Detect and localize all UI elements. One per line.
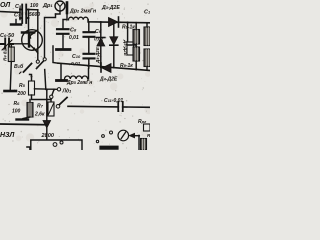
svg-text:Д3-Д2Е: Д3-Д2Е: [101, 5, 120, 11]
svg-text:R: R: [147, 133, 150, 138]
transistor T1: [22, 30, 43, 51]
svg-text:Д4-Д2Е: Д4-Д2Е: [95, 46, 100, 64]
svg-text:R8-1к: R8-1к: [122, 25, 135, 31]
resistor right-edge bottom: [144, 49, 151, 67]
terminal circles bottom middle: [96, 140, 98, 142]
resistor bottom right: [141, 139, 147, 151]
svg-text:Др2 2мкГн: Др2 2мкГн: [69, 9, 97, 15]
svg-text:2800: 2800: [41, 133, 55, 139]
resistor R9: [133, 47, 140, 61]
svg-text:5600: 5600: [29, 12, 40, 18]
switch Ld (to bus3): [56, 105, 60, 109]
node label ОЛ (cut word, top-left): [0, 2, 10, 9]
capacitor C6 (trimmer): [0, 33, 14, 39]
capacitor C10: [84, 54, 95, 59]
capacitor C8: [57, 29, 69, 34]
bus 4 (left bottom): [0, 123, 47, 126]
phones box 2800: [41, 133, 55, 139]
Rreg label + box: [138, 119, 147, 125]
meter (circle with arrow): [118, 130, 129, 141]
screen box wires (left tall verticals): [45, 14, 56, 57]
junction arrow to phones: [43, 121, 51, 129]
diode D3: [109, 18, 119, 27]
diode D6 branch (down): [113, 22, 115, 36]
wire from row down to arrow: [46, 90, 48, 121]
svg-text:Др3 2мкГн: Др3 2мкГн: [66, 80, 92, 86]
svg-text:200: 200: [17, 91, 27, 97]
svg-text:100: 100: [30, 3, 39, 9]
capacitor C9 column: [88, 22, 90, 32]
resistor R6: [29, 100, 31, 103]
contact stub: [52, 90, 54, 96]
svg-text:0,01: 0,01: [69, 35, 79, 41]
wire arrow into meter: [129, 133, 134, 138]
jack stem: [56, 11, 61, 14]
resistor right-edge top: [144, 27, 151, 46]
resistor R8: [133, 30, 140, 45]
switch B1b: [14, 63, 24, 70]
svg-text:С6-50: С6-50: [0, 33, 14, 39]
resistor R7: [50, 100, 52, 103]
svg-text:2,6к: 2,6к: [34, 112, 45, 118]
tap bar: [22, 31, 34, 34]
bus top right: [88, 20, 150, 23]
choke Dr2 coil: [69, 17, 89, 20]
wire top-left to C5/C7: [0, 12, 20, 13]
label C (cut at right edge): [144, 10, 151, 16]
jack socket (circle with Y): [55, 1, 65, 11]
R8 column from bus: [127, 23, 129, 43]
capacitor C11 on bus3: [118, 102, 122, 111]
wire base bus: [10, 43, 29, 45]
choke Dr2 lead: [66, 13, 68, 20]
emitter contact lead / wire row y=89.5: [35, 70, 57, 90]
svg-text:R4 82к: R4 82к: [3, 46, 9, 61]
svg-text:НЗЛ: НЗЛ: [0, 132, 15, 139]
bus 3 lower-right long wire: [68, 106, 150, 107]
choke Dr3 coil: [65, 76, 88, 79]
ground on bus2: [60, 64, 62, 79]
diode D5 branch (up): [100, 22, 102, 37]
svg-text:Д4-Д2Е: Д4-Д2Е: [99, 77, 118, 83]
wire long vertical through transistor: [37, 10, 39, 60]
svg-text:ОЛ: ОЛ: [0, 2, 10, 9]
ground under R4: [5, 90, 17, 93]
ground under C8: [57, 48, 71, 51]
contact circle emitter: [36, 60, 39, 63]
open contact circle right of row: [57, 88, 60, 91]
resistor R5: [29, 81, 35, 95]
label C5 100: [15, 3, 39, 10]
label C7 5600: [14, 12, 40, 19]
switch arm from contact: [37, 61, 44, 69]
jack sleeve bar: [66, 3, 69, 14]
svg-text:100: 100: [12, 109, 21, 115]
corner mark bottom-left: [27, 147, 30, 150]
diode D4 on bus2: [100, 63, 102, 72]
wire collector top link: [29, 9, 38, 11]
box aux (capacitor box): [127, 42, 134, 55]
contact circle on it: [43, 58, 46, 61]
node left plate rail: [19, 9, 21, 20]
inductor Dr1 label: [42, 3, 53, 9]
capacitor C5: [20, 5, 29, 15]
capacitor C7: [20, 14, 29, 24]
capacitor C8 column top link: [63, 20, 67, 29]
resistor R4: [8, 47, 14, 62]
svg-text:В1б: В1б: [14, 63, 24, 70]
chassis bar under left node: [15, 20, 17, 24]
ground under R6: [23, 117, 30, 119]
paper background: [0, 0, 150, 150]
node right rail down from caps: [28, 10, 30, 32]
bus 2 (middle): [53, 46, 58, 63]
dark blob terminal block: [102, 146, 117, 150]
svg-text:С11-0,01: С11-0,01: [104, 98, 123, 104]
wire from switch to R5: [30, 75, 32, 82]
